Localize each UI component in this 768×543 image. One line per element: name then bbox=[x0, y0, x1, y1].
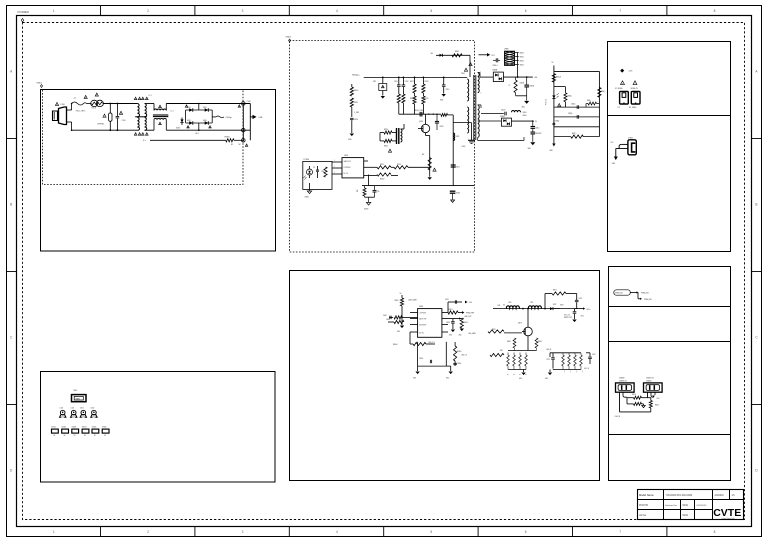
svg-text:R8605: R8605 bbox=[457, 351, 462, 353]
svg-text:R872: R872 bbox=[553, 304, 557, 306]
svg-text:GND: GND bbox=[545, 378, 548, 380]
svg-text:COMP/FB: COMP/FB bbox=[344, 167, 351, 169]
svg-text:12V1: 12V1 bbox=[629, 71, 633, 73]
svg-text:R8603: R8603 bbox=[464, 322, 468, 324]
svg-text:PWM_BLK: PWM_BLK bbox=[644, 299, 653, 301]
svg-text:ST004: ST004 bbox=[82, 426, 87, 428]
svg-text:R88(1): R88(1) bbox=[568, 96, 573, 98]
svg-text:L1-1: L1-1 bbox=[149, 95, 152, 97]
svg-text:D202: D202 bbox=[91, 407, 95, 409]
svg-text:R: R bbox=[506, 374, 508, 375]
svg-text:NC: NC bbox=[74, 435, 76, 437]
svg-text:C811: C811 bbox=[394, 81, 398, 83]
svg-text:GND: GND bbox=[397, 331, 400, 333]
svg-text:MB/M: MB/M bbox=[76, 398, 81, 400]
svg-text:NC: NC bbox=[94, 435, 96, 437]
svg-text:Q870: Q870 bbox=[518, 323, 522, 325]
svg-text:A000001: A000001 bbox=[715, 494, 725, 497]
svg-text:B: B bbox=[10, 203, 12, 207]
svg-text:R: R bbox=[524, 374, 526, 375]
svg-text:U801: U801 bbox=[344, 155, 348, 157]
svg-text:D804: D804 bbox=[203, 120, 207, 122]
svg-text:R88-0: R88-0 bbox=[632, 394, 636, 396]
svg-text:U860: U860 bbox=[419, 306, 423, 308]
svg-text:Caring Vision Tech: Caring Vision Tech bbox=[721, 518, 734, 520]
svg-text:C700: C700 bbox=[122, 120, 126, 122]
svg-text:C88(8): C88(8) bbox=[568, 113, 573, 115]
svg-text:SGND: SGND bbox=[456, 193, 460, 195]
svg-text:GND: GND bbox=[459, 335, 462, 337]
svg-text:R88-0: R88-0 bbox=[523, 112, 527, 114]
svg-text:R88-0: R88-0 bbox=[523, 115, 527, 117]
svg-text:715G8320-P01-000-002M: 715G8320-P01-000-002M bbox=[666, 495, 693, 497]
svg-text:CN8801: CN8801 bbox=[646, 380, 652, 382]
svg-text:C872: C872 bbox=[547, 359, 551, 361]
svg-text:SoftwareVer: SoftwareVer bbox=[665, 504, 677, 507]
svg-text:6: 6 bbox=[525, 9, 527, 13]
svg-text:NB-1: NB-1 bbox=[74, 390, 78, 392]
svg-text:R8: R8 bbox=[422, 154, 424, 156]
svg-text:LF880: LF880 bbox=[504, 49, 509, 51]
svg-text:2: 2 bbox=[147, 530, 149, 534]
svg-text:R812: R812 bbox=[410, 81, 414, 83]
svg-text:+TS-Mpp: +TS-Mpp bbox=[225, 117, 232, 119]
svg-text:R8604: R8604 bbox=[393, 344, 398, 346]
svg-text:RES01: RES01 bbox=[225, 136, 230, 138]
svg-text:EB871 1/2W: EB871 1/2W bbox=[564, 317, 572, 319]
svg-text:C8: C8 bbox=[313, 167, 315, 169]
svg-text:B8500: B8500 bbox=[520, 52, 524, 54]
svg-text:PWM_REF: PWM_REF bbox=[466, 313, 474, 315]
svg-text:R823: R823 bbox=[397, 164, 401, 166]
svg-text:POWER: POWER bbox=[18, 10, 30, 14]
svg-text:Ver/Iss: Ver/Iss bbox=[639, 514, 647, 517]
svg-text:C8812: C8812 bbox=[456, 167, 460, 169]
svg-text:R8502: R8502 bbox=[380, 179, 385, 181]
svg-text:R88(-): R88(-) bbox=[587, 100, 591, 102]
svg-text:NEW: NEW bbox=[683, 515, 689, 517]
svg-text:C8605: C8605 bbox=[419, 358, 423, 360]
svg-text:C8602: C8602 bbox=[446, 322, 450, 324]
svg-text:ZR1: ZR1 bbox=[373, 81, 376, 83]
svg-text:PWM_BLK: PWM_BLK bbox=[641, 293, 650, 295]
svg-text:PWM_DIM: PWM_DIM bbox=[615, 293, 623, 295]
svg-text:R87: R87 bbox=[575, 371, 577, 374]
svg-text:C101: C101 bbox=[71, 407, 75, 409]
svg-text:F700: F700 bbox=[61, 104, 65, 106]
svg-text:GND1: GND1 bbox=[37, 83, 43, 85]
svg-text:L870: L870 bbox=[508, 302, 512, 304]
svg-text:R820: R820 bbox=[384, 129, 388, 131]
svg-text:D802: D802 bbox=[203, 107, 207, 109]
svg-text:R87: R87 bbox=[569, 371, 571, 374]
svg-text:C880-4: C880-4 bbox=[493, 65, 498, 67]
svg-text:ST005: ST005 bbox=[92, 426, 97, 428]
svg-text:7: 7 bbox=[619, 9, 621, 13]
svg-text:LDI PWMI: LDI PWMI bbox=[419, 312, 426, 314]
svg-text:2: 2 bbox=[147, 9, 149, 13]
svg-text:R810: R810 bbox=[354, 90, 358, 92]
svg-text:R: R bbox=[512, 374, 514, 375]
svg-text:CN8801 5V: CN8801 5V bbox=[646, 378, 654, 380]
svg-text:R870: R870 bbox=[492, 329, 496, 331]
svg-text:LDIB_OVP: LDIB_OVP bbox=[464, 316, 471, 318]
svg-text:R821: R821 bbox=[384, 146, 388, 148]
svg-text:GND: GND bbox=[446, 378, 449, 380]
svg-text:C85: C85 bbox=[377, 191, 380, 193]
svg-text:PTC-S-S: PTC-S-S bbox=[546, 99, 548, 105]
svg-text:12V: 12V bbox=[618, 107, 621, 109]
svg-text:ST003: ST003 bbox=[72, 426, 77, 428]
svg-text:NC: NC bbox=[64, 435, 66, 437]
svg-text:R811: R811 bbox=[354, 102, 358, 104]
svg-text:L8811: L8811 bbox=[456, 136, 460, 138]
svg-text:D803: D803 bbox=[187, 120, 191, 122]
svg-text:R87: R87 bbox=[563, 371, 565, 374]
svg-text:GND: GND bbox=[413, 378, 416, 380]
svg-text:R8601: R8601 bbox=[448, 309, 453, 311]
svg-text:VBridge+: VBridge+ bbox=[352, 74, 361, 77]
svg-text:R87: R87 bbox=[581, 371, 583, 374]
svg-text:C88-0: C88-0 bbox=[536, 128, 540, 130]
svg-text:R813: R813 bbox=[425, 81, 429, 83]
svg-text:CVTE: CVTE bbox=[713, 507, 741, 519]
svg-text:CN8800 5V: CN8800 5V bbox=[619, 380, 627, 382]
svg-text:R871: R871 bbox=[553, 290, 557, 292]
svg-text:R: R bbox=[518, 374, 520, 375]
svg-text:PCB P/N: PCB P/N bbox=[639, 505, 649, 507]
svg-text:7: 7 bbox=[619, 530, 621, 534]
svg-text:C861: C861 bbox=[445, 299, 449, 301]
svg-text:T801: T801 bbox=[461, 73, 465, 75]
svg-text:NC: NC bbox=[54, 435, 56, 437]
svg-text:R88(5-4) C88(4): R88(5-4) C88(4) bbox=[415, 110, 425, 112]
svg-text:NC: NC bbox=[84, 435, 86, 437]
svg-text:GND: GND bbox=[449, 335, 452, 337]
svg-text:LED_IN: LED_IN bbox=[584, 368, 589, 370]
svg-text:1_884: 1_884 bbox=[354, 112, 359, 114]
svg-text:SGND: SGND bbox=[462, 146, 466, 148]
svg-text:4: 4 bbox=[336, 530, 338, 534]
svg-text:D880B: D880B bbox=[500, 116, 505, 118]
svg-text:NTC8: NTC8 bbox=[92, 108, 96, 110]
svg-text:DC SPGB0: DC SPGB0 bbox=[615, 88, 623, 90]
svg-text:2016/5/20: 2016/5/20 bbox=[697, 505, 708, 507]
svg-text:C873: C873 bbox=[592, 354, 596, 356]
svg-text:C8607: C8607 bbox=[386, 319, 390, 321]
svg-text:C870: C870 bbox=[579, 298, 583, 300]
svg-text:SPGB0 5V: SPGB0 5V bbox=[631, 88, 638, 90]
svg-text:LIVE_IN: LIVE_IN bbox=[615, 416, 621, 418]
svg-text:CY80: CY80 bbox=[247, 101, 251, 103]
svg-text:R88(-): R88(-) bbox=[572, 133, 577, 135]
svg-text:C871: C871 bbox=[581, 316, 585, 318]
svg-text:LED_IN: LED_IN bbox=[546, 349, 551, 351]
svg-text:D870: D870 bbox=[560, 305, 564, 307]
svg-text:NC: NC bbox=[104, 435, 106, 437]
svg-text:5V0: 5V0 bbox=[469, 302, 472, 304]
svg-text:CN8800: CN8800 bbox=[619, 378, 625, 380]
svg-text:D88(8): D88(8) bbox=[555, 121, 560, 123]
svg-text:R85: R85 bbox=[357, 189, 359, 192]
svg-text:R88(-): R88(-) bbox=[601, 91, 606, 93]
svg-text:8: 8 bbox=[714, 9, 716, 13]
svg-text:PC830: PC830 bbox=[304, 159, 310, 161]
svg-text:LDIB_CTL: LDIB_CTL bbox=[428, 342, 435, 344]
svg-text:VX: VX bbox=[503, 305, 505, 307]
svg-text:VD INL: VD INL bbox=[419, 332, 424, 334]
svg-text:NC CS: NC CS bbox=[344, 173, 349, 175]
svg-text:R83: R83 bbox=[322, 171, 325, 173]
svg-text:L1-7: L1-7 bbox=[171, 111, 174, 113]
svg-text:B8500: B8500 bbox=[520, 56, 524, 58]
svg-text:C88-07: C88-07 bbox=[501, 109, 506, 111]
svg-text:C8606: C8606 bbox=[457, 363, 461, 365]
svg-text:D801: D801 bbox=[187, 107, 191, 109]
svg-text:5: 5 bbox=[430, 9, 432, 13]
svg-text:GND/ISNP: GND/ISNP bbox=[419, 324, 426, 326]
svg-text:R860: R860 bbox=[395, 300, 399, 302]
svg-text:ST002: ST002 bbox=[62, 426, 67, 428]
svg-text:GND2: GND2 bbox=[286, 37, 292, 39]
svg-text:C812: C812 bbox=[405, 81, 409, 83]
svg-text:R8643: R8643 bbox=[538, 341, 542, 343]
svg-text:R814: R814 bbox=[410, 98, 414, 100]
svg-text:RE9VR1: RE9VR1 bbox=[98, 124, 105, 126]
svg-text:Model Name: Model Name bbox=[639, 493, 654, 497]
svg-text:R88-0: R88-0 bbox=[655, 405, 659, 407]
svg-text:3: 3 bbox=[242, 9, 244, 13]
svg-text:C815: C815 bbox=[446, 89, 450, 91]
svg-text:R881-S: R881-S bbox=[556, 77, 561, 79]
svg-text:C810: C810 bbox=[354, 119, 358, 121]
svg-text:C88(2): C88(2) bbox=[571, 104, 576, 106]
svg-text:C860: C860 bbox=[383, 315, 387, 317]
svg-text:1: 1 bbox=[53, 530, 55, 534]
svg-text:EB52/4W: EB52/4W bbox=[536, 133, 543, 135]
svg-text:B: B bbox=[755, 203, 757, 207]
svg-text:3: 3 bbox=[242, 530, 244, 534]
svg-text:LED+: LED+ bbox=[587, 309, 591, 311]
svg-text:LED_CS/: LED_CS/ bbox=[564, 315, 570, 317]
svg-text:B8500: B8500 bbox=[520, 64, 524, 66]
svg-text:D201: D201 bbox=[80, 407, 84, 409]
svg-text:+3VL: +3VL bbox=[534, 77, 538, 79]
svg-text:LED_CS: LED_CS bbox=[461, 355, 467, 357]
svg-text:C8811: C8811 bbox=[440, 126, 444, 128]
svg-text:GND: GND bbox=[519, 378, 522, 380]
svg-text:SC80: SC80 bbox=[176, 128, 180, 130]
svg-text:R8642: R8642 bbox=[507, 341, 511, 343]
svg-text:B8500: B8500 bbox=[520, 60, 524, 62]
svg-text:5: 5 bbox=[430, 530, 432, 534]
svg-text:R815: R815 bbox=[425, 98, 429, 100]
svg-text:VD1: VD1 bbox=[492, 55, 495, 57]
svg-text:6: 6 bbox=[525, 530, 527, 534]
svg-text:S-1: S-1 bbox=[143, 140, 146, 142]
svg-text:ST001: ST001 bbox=[51, 426, 56, 428]
svg-text:TSOL-TNT5: TSOL-TNT5 bbox=[76, 111, 86, 113]
svg-text:1: 1 bbox=[53, 9, 55, 13]
svg-text:8: 8 bbox=[714, 530, 716, 534]
svg-text:4: 4 bbox=[336, 9, 338, 13]
svg-text:R801: R801 bbox=[455, 51, 459, 53]
svg-text:R822: R822 bbox=[380, 164, 384, 166]
svg-text:NEW: NEW bbox=[683, 505, 689, 507]
svg-text:Q801: Q801 bbox=[419, 121, 423, 123]
svg-text:L871: L871 bbox=[530, 302, 534, 304]
svg-text:C100: C100 bbox=[60, 407, 64, 409]
svg-text:ST006: ST006 bbox=[102, 426, 107, 428]
svg-text:SR1: SR1 bbox=[500, 350, 503, 352]
